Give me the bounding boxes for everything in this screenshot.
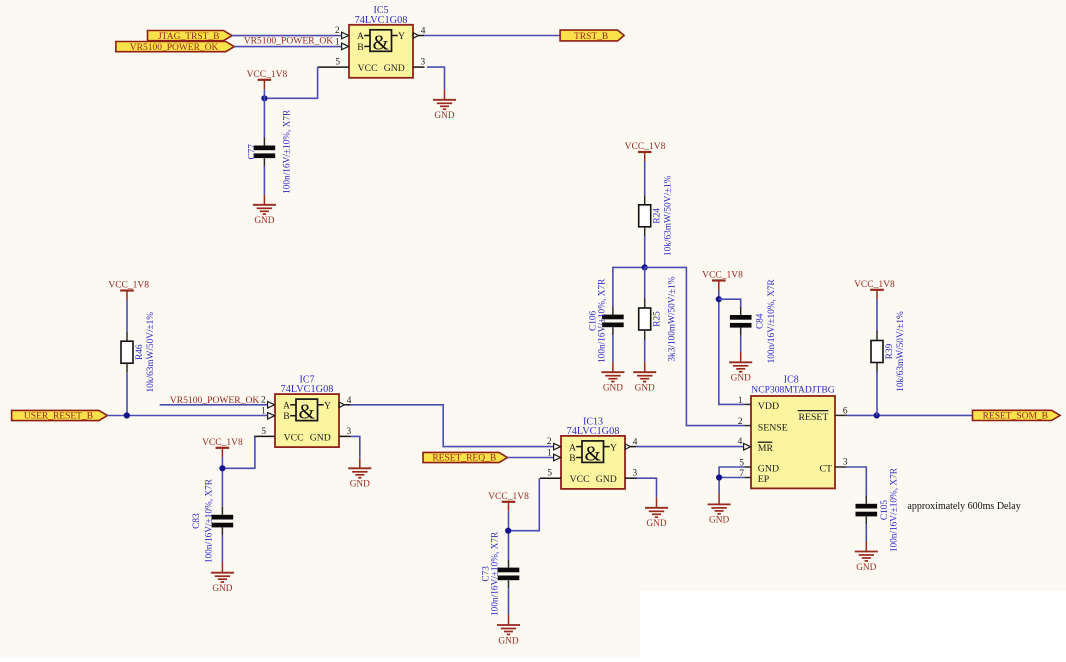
svg-text:Y: Y: [398, 31, 405, 42]
ground GND below R25: [644, 362, 646, 373]
wire VCC_1V8 to R39: [876, 299, 878, 331]
svg-text:GND: GND: [758, 464, 779, 475]
svg-text:GND: GND: [310, 432, 331, 443]
wire junction to C84: [719, 299, 741, 307]
svg-text:5: 5: [547, 469, 552, 479]
svg-text:&: &: [373, 30, 389, 54]
svg-text:VCC: VCC: [284, 432, 304, 443]
svg-text:C83: C83: [192, 513, 202, 529]
svg-text:10k/63mW/50V/±1%: 10k/63mW/50V/±1%: [896, 311, 906, 392]
svg-text:A: A: [283, 401, 290, 412]
wire VR5100_POWER_OK to IC5 B: [234, 46, 341, 48]
wire IC8 CT to C105: [847, 467, 867, 496]
svg-text:&: &: [299, 400, 315, 424]
svg-text:VCC_1V8: VCC_1V8: [854, 280, 895, 290]
svg-text:VCC_1V8: VCC_1V8: [488, 492, 529, 502]
svg-text:R24: R24: [653, 208, 663, 224]
svg-text:GND: GND: [635, 384, 655, 394]
junction VCC_1V8 / C83: [219, 465, 225, 471]
wire IC13 GND pin to ground: [637, 478, 657, 497]
svg-text:RESET_REQ_B: RESET_REQ_B: [432, 454, 496, 464]
wire VCC_1V8 to C77: [263, 89, 265, 137]
wire R39 to RESET net: [876, 371, 878, 415]
svg-text:C105: C105: [880, 500, 890, 520]
svg-text:GND: GND: [596, 474, 617, 485]
svg-text:3: 3: [843, 458, 848, 468]
junction VCC_1V8 / C84 / VDD: [716, 296, 722, 302]
wire IC7 GND pin to ground: [351, 436, 360, 457]
svg-text:VCC_1V8: VCC_1V8: [202, 438, 243, 448]
ground GND at IC5 pin3: [444, 89, 446, 100]
junction GND/EP: [716, 474, 722, 480]
wire IC13 VCC pin to supply: [508, 478, 539, 531]
svg-text:1: 1: [547, 449, 552, 459]
svg-text:VCC_1V8: VCC_1V8: [108, 281, 149, 291]
svg-text:&: &: [585, 441, 601, 465]
wire IC8 RESET to RESET_SOM_B: [847, 414, 973, 416]
svg-text:1: 1: [261, 407, 266, 417]
wire IC5 GND pin to ground: [427, 67, 445, 89]
wire C105 to GND: [865, 524, 867, 541]
svg-text:GND: GND: [731, 374, 751, 384]
svg-text:VCC: VCC: [358, 63, 378, 74]
net flag USER_RESET_B: [12, 410, 108, 420]
svg-text:EP: EP: [758, 474, 770, 485]
wire VCC_1V8 to junction to IC8 VDD: [719, 290, 744, 404]
wire IC13 Y to IC8 MR: [636, 446, 744, 448]
wire RESET_REQ_B to IC13 B: [508, 457, 554, 459]
svg-text:5: 5: [335, 58, 340, 68]
junction VCC_1V8 / C77: [261, 95, 267, 101]
wire IC5 VCC pin to supply: [264, 67, 317, 98]
net flag VR5100_POWER_OK: [116, 42, 234, 52]
svg-text:VCC_1V8: VCC_1V8: [247, 70, 288, 80]
wire IC5 Y to TRST_B: [424, 35, 560, 37]
svg-text:10k/63mW/50V/±1%: 10k/63mW/50V/±1%: [146, 312, 156, 393]
ground GND at IC7 pin3: [359, 458, 361, 469]
resistor R46 10k: [126, 332, 128, 342]
svg-text:10k/63mW/50V/±1%: 10k/63mW/50V/±1%: [664, 175, 674, 256]
svg-text:USER_RESET_B: USER_RESET_B: [24, 412, 93, 422]
capacitor C106 100n: [612, 307, 614, 315]
svg-text:MR: MR: [758, 443, 774, 454]
resistor R25 3k3: [644, 299, 646, 309]
svg-text:B: B: [283, 411, 289, 422]
capacitor C84 100n: [740, 307, 742, 315]
resistor R24 10k: [644, 195, 646, 205]
svg-text:3: 3: [421, 58, 426, 68]
wire junction to C106: [613, 267, 645, 306]
svg-text:VCC: VCC: [570, 474, 590, 485]
svg-text:GND: GND: [254, 216, 274, 226]
svg-text:GND: GND: [350, 480, 370, 490]
svg-text:R25: R25: [653, 311, 663, 327]
svg-text:Y: Y: [610, 442, 617, 453]
wire VCC_1V8 to R46: [126, 300, 128, 332]
svg-text:2: 2: [738, 417, 743, 427]
wire VR5100_POWER_OK to IC7 A: [160, 404, 268, 406]
capacitor C73 100n: [508, 560, 510, 568]
svg-text:GND: GND: [434, 111, 454, 121]
svg-text:A: A: [569, 442, 576, 453]
ground GND below C84: [740, 352, 742, 363]
svg-text:2: 2: [547, 437, 552, 447]
junction R24/R25/C106/SENSE: [642, 264, 648, 270]
svg-text:100n/16V/±10%, X7R: 100n/16V/±10%, X7R: [491, 531, 501, 616]
svg-text:B: B: [569, 453, 575, 464]
junction R46 / USER_RESET_B: [124, 412, 130, 418]
wire C84 to GND: [740, 336, 742, 352]
svg-text:1: 1: [335, 37, 340, 47]
net flag TRST_B: [560, 30, 624, 41]
ground GND below C77: [263, 194, 265, 205]
svg-text:approximately 600ms Delay: approximately 600ms Delay: [907, 501, 1020, 512]
svg-text:RESET_SOM_B: RESET_SOM_B: [983, 412, 1048, 422]
svg-text:4: 4: [738, 437, 743, 447]
svg-text:R46: R46: [135, 344, 145, 360]
wire R46 to USER_RESET_B net: [126, 373, 128, 416]
svg-text:VCC_1V8: VCC_1V8: [702, 271, 743, 281]
svg-text:5: 5: [261, 427, 266, 437]
wire R25 to GND: [644, 340, 646, 362]
ground GND below C106: [612, 362, 614, 373]
capacitor C83 100n: [221, 507, 223, 515]
wire junction to IC8 SENSE: [645, 267, 745, 425]
svg-text:3: 3: [633, 469, 638, 479]
svg-text:R39: R39: [885, 343, 895, 359]
capacitor C77 100n: [263, 138, 265, 146]
ground GND below C105: [865, 541, 867, 552]
svg-text:NCP308MTADJTBG: NCP308MTADJTBG: [751, 384, 835, 395]
wire R24 to junction: [644, 236, 646, 267]
ground GND below C83: [221, 562, 223, 573]
svg-text:Y: Y: [324, 401, 331, 412]
svg-text:VR5100_POWER_OK: VR5100_POWER_OK: [244, 36, 334, 47]
svg-text:100n/16V/±10%, X7R: 100n/16V/±10%, X7R: [767, 278, 777, 363]
svg-text:GND: GND: [646, 519, 666, 529]
svg-text:GND: GND: [384, 63, 405, 74]
white page corner: [640, 591, 1066, 657]
svg-text:GND: GND: [498, 636, 518, 646]
svg-text:GND: GND: [603, 384, 623, 394]
svg-text:B: B: [357, 42, 363, 53]
svg-text:SENSE: SENSE: [758, 422, 788, 433]
wire JTAG_TRST_B to IC5 A: [232, 35, 342, 37]
wire VCC_1V8 through junction to C73: [508, 511, 510, 559]
svg-text:C77: C77: [248, 144, 258, 160]
net flag JTAG_TRST_B: [148, 31, 233, 41]
ground GND below IC8 EP: [718, 494, 720, 505]
svg-text:100n/16V/±10%, X7R: 100n/16V/±10%, X7R: [597, 278, 607, 363]
capacitor C105 100n: [865, 496, 867, 504]
wire C83 to GND: [221, 535, 223, 562]
wire VCC_1V8 through junction to C83: [221, 457, 223, 507]
svg-text:RESET: RESET: [798, 412, 828, 423]
svg-text:A: A: [357, 31, 364, 42]
svg-text:1: 1: [738, 396, 743, 406]
IC IC8 NCP308MTADJTBG body: [738, 375, 848, 489]
svg-text:CT: CT: [819, 464, 832, 475]
svg-text:3: 3: [347, 427, 352, 437]
svg-text:VCC_1V8: VCC_1V8: [625, 142, 666, 152]
svg-text:GND: GND: [856, 563, 876, 573]
svg-text:C84: C84: [756, 313, 766, 329]
wire junction to R25: [644, 267, 646, 298]
net flag RESET_REQ_B: [423, 452, 508, 462]
svg-text:JTAG_TRST_B: JTAG_TRST_B: [158, 32, 220, 42]
wire IC7 VCC pin to supply: [222, 436, 255, 468]
IC IC13 74LVC1G08 body: [540, 416, 638, 489]
svg-text:TRST_B: TRST_B: [574, 32, 608, 42]
svg-text:100n/16V/±10%, X7R: 100n/16V/±10%, X7R: [890, 467, 900, 552]
junction VCC_1V8 / C73: [505, 528, 511, 534]
svg-text:VDD: VDD: [758, 401, 779, 412]
svg-text:VR5100_POWER_OK: VR5100_POWER_OK: [130, 43, 219, 53]
IC IC7 74LVC1G08 body: [254, 375, 352, 448]
wire USER_RESET_B to IC7 B: [107, 415, 267, 417]
ground GND at IC13 pin3: [656, 497, 658, 508]
svg-text:100n/16V/±10%, X7R: 100n/16V/±10%, X7R: [204, 478, 214, 563]
svg-text:100n/16V/±10%, X7R: 100n/16V/±10%, X7R: [283, 109, 293, 194]
svg-text:2: 2: [261, 395, 266, 405]
ground GND below C73: [508, 615, 510, 626]
svg-text:2: 2: [335, 26, 340, 36]
wire C106 to GND: [612, 335, 614, 362]
wire C77 to GND: [263, 166, 265, 194]
svg-text:GND: GND: [709, 516, 729, 526]
net flag RESET_SOM_B: [973, 410, 1061, 420]
resistor R39 10k: [876, 331, 878, 341]
svg-text:GND: GND: [212, 584, 232, 594]
IC IC5 74LVC1G08 body: [318, 5, 426, 78]
wire IC7 Y to IC13 A: [350, 405, 553, 447]
svg-text:3k3/100mW/50V/±1%: 3k3/100mW/50V/±1%: [668, 276, 678, 361]
wire IC8 GND/EP pins to ground: [719, 467, 744, 478]
junction RESET / R39: [874, 412, 880, 418]
wire VCC_1V8 to R24: [644, 162, 646, 196]
wire C73 to GND: [508, 588, 510, 614]
